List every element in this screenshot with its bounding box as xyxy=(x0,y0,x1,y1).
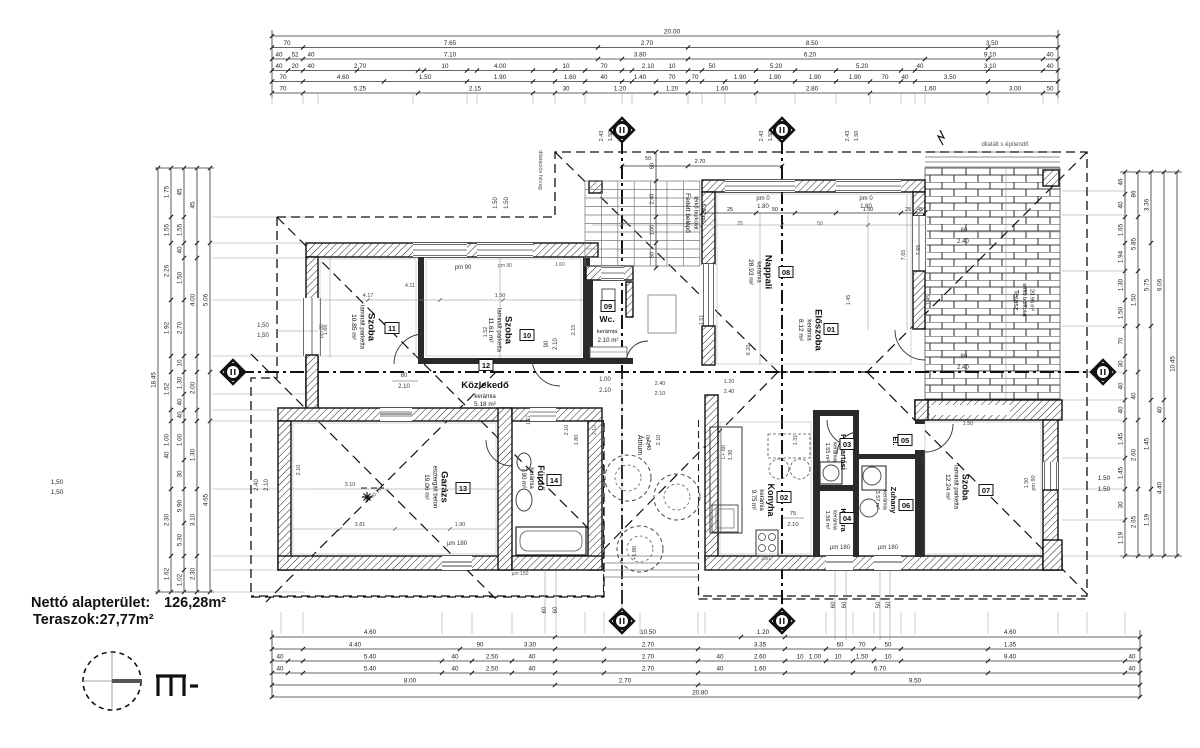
svg-text:7.65: 7.65 xyxy=(901,250,907,261)
svg-text:1.45: 1.45 xyxy=(1144,437,1151,450)
svg-text:2.40: 2.40 xyxy=(254,479,260,491)
svg-text:70: 70 xyxy=(279,74,287,81)
svg-text:10: 10 xyxy=(177,359,184,367)
svg-text:1.50: 1.50 xyxy=(854,131,860,142)
svg-text:05: 05 xyxy=(901,436,909,445)
svg-text:40: 40 xyxy=(1131,392,1138,400)
svg-text:3.80: 3.80 xyxy=(634,52,647,59)
svg-text:50: 50 xyxy=(886,601,892,608)
svg-text:3.36: 3.36 xyxy=(1144,198,1151,211)
svg-text:02: 02 xyxy=(780,493,788,502)
svg-text:1.45: 1.45 xyxy=(1118,432,1125,445)
svg-text:2.40: 2.40 xyxy=(957,239,969,245)
svg-text:90: 90 xyxy=(544,340,550,347)
svg-text:40: 40 xyxy=(1118,201,1125,209)
svg-text:3.81: 3.81 xyxy=(355,522,366,528)
svg-text:40: 40 xyxy=(275,63,283,70)
svg-text:térkő burkolat: térkő burkolat xyxy=(1021,283,1027,317)
svg-text:2.40: 2.40 xyxy=(724,389,735,395)
svg-text:40: 40 xyxy=(716,666,724,673)
svg-text:1.00: 1.00 xyxy=(177,433,184,446)
svg-text:Nettó alapterület:: Nettó alapterület: xyxy=(31,595,150,611)
svg-text:1.50: 1.50 xyxy=(177,271,184,284)
svg-text:1.50: 1.50 xyxy=(1024,478,1030,489)
svg-text:kerámia: kerámia xyxy=(597,329,618,335)
svg-text:46: 46 xyxy=(1118,178,1125,186)
svg-text:1.00: 1.00 xyxy=(809,654,822,661)
svg-text:30: 30 xyxy=(177,470,184,478)
svg-text:2.10: 2.10 xyxy=(264,479,270,491)
svg-text:1.92: 1.92 xyxy=(164,321,171,334)
svg-text:60: 60 xyxy=(842,601,848,608)
svg-text:1.50: 1.50 xyxy=(1118,306,1125,319)
svg-text:40: 40 xyxy=(716,654,724,661)
svg-text:7.90 m²: 7.90 m² xyxy=(520,468,526,488)
svg-text:2.70: 2.70 xyxy=(642,654,655,661)
svg-text:20.80: 20.80 xyxy=(692,690,708,697)
svg-text:5.90: 5.90 xyxy=(177,499,184,512)
svg-text:1.90: 1.90 xyxy=(455,522,466,528)
svg-text:Szoba: Szoba xyxy=(503,316,514,345)
svg-text:28.93 m²: 28.93 m² xyxy=(747,259,754,285)
svg-text:2.80: 2.80 xyxy=(806,86,819,93)
svg-text:1.31: 1.31 xyxy=(793,435,799,446)
svg-text:1.52: 1.52 xyxy=(483,327,489,338)
svg-text:20.00: 20.00 xyxy=(664,29,681,36)
svg-text:40: 40 xyxy=(177,246,184,254)
svg-text:1.50: 1.50 xyxy=(1098,486,1111,493)
svg-text:40: 40 xyxy=(528,666,536,673)
svg-text:1.75: 1.75 xyxy=(164,185,171,198)
svg-text:70: 70 xyxy=(600,63,608,70)
svg-text:1.90: 1.90 xyxy=(809,74,822,81)
svg-text:60: 60 xyxy=(650,252,656,258)
svg-text:1.56 m²: 1.56 m² xyxy=(824,511,830,530)
svg-text:40: 40 xyxy=(1128,654,1136,661)
svg-text:2.00: 2.00 xyxy=(190,381,197,394)
svg-text:40: 40 xyxy=(451,666,459,673)
svg-text:Fedett belépő: Fedett belépő xyxy=(684,193,691,233)
svg-text:50: 50 xyxy=(921,457,927,463)
svg-text:8.50: 8.50 xyxy=(806,40,819,47)
svg-text:7.10: 7.10 xyxy=(444,52,457,59)
svg-text:kerámia: kerámia xyxy=(832,510,838,531)
svg-text:14: 14 xyxy=(550,476,559,485)
svg-text:2.43: 2.43 xyxy=(845,131,851,142)
svg-text:50: 50 xyxy=(876,601,882,608)
svg-text:2.40: 2.40 xyxy=(655,381,666,387)
svg-text:4.40: 4.40 xyxy=(1157,481,1164,494)
svg-text:µm 180: µm 180 xyxy=(830,545,851,551)
svg-text:5.85: 5.85 xyxy=(1131,237,1138,250)
svg-text:40: 40 xyxy=(451,654,459,661)
svg-text:70: 70 xyxy=(1118,337,1125,345)
svg-text:1.20: 1.20 xyxy=(757,629,770,636)
svg-text:50: 50 xyxy=(645,156,651,162)
svg-text:2.10: 2.10 xyxy=(642,63,655,70)
svg-text:30: 30 xyxy=(562,86,570,93)
svg-text:10.50: 10.50 xyxy=(640,629,656,636)
svg-text:1,50: 1,50 xyxy=(51,489,64,496)
svg-text:1.55 m²: 1.55 m² xyxy=(824,443,830,462)
svg-text:µm 180: µm 180 xyxy=(878,545,899,551)
svg-text:45: 45 xyxy=(177,188,184,196)
svg-text:50: 50 xyxy=(708,63,716,70)
svg-text:9.40: 9.40 xyxy=(1004,654,1017,661)
svg-text:40: 40 xyxy=(1118,406,1125,414)
svg-text:Wc.: Wc. xyxy=(599,314,614,324)
svg-text:1.00: 1.00 xyxy=(599,377,611,383)
svg-text:70: 70 xyxy=(283,40,291,47)
svg-text:5.25: 5.25 xyxy=(354,86,367,93)
svg-text:50: 50 xyxy=(817,221,823,227)
svg-text:10: 10 xyxy=(796,654,804,661)
svg-text:40: 40 xyxy=(1157,406,1164,414)
svg-text:70: 70 xyxy=(858,642,866,649)
svg-text:3.57 m²: 3.57 m² xyxy=(874,491,880,510)
svg-text:5.40: 5.40 xyxy=(364,666,377,673)
svg-text:1.50: 1.50 xyxy=(1098,475,1111,482)
svg-text:2.70: 2.70 xyxy=(619,678,632,685)
svg-text:1.55: 1.55 xyxy=(177,223,184,236)
svg-text:kerámia: kerámia xyxy=(758,489,764,511)
svg-text:10: 10 xyxy=(884,654,892,661)
svg-text:6.06: 6.06 xyxy=(1157,278,1164,291)
svg-text:2.15: 2.15 xyxy=(571,325,577,336)
svg-text:1.51: 1.51 xyxy=(699,315,705,326)
svg-text:40: 40 xyxy=(1046,52,1054,59)
svg-text:70: 70 xyxy=(668,74,676,81)
svg-text:2.70: 2.70 xyxy=(177,321,184,334)
svg-text:1.20: 1.20 xyxy=(666,86,679,93)
svg-text:kerámia: kerámia xyxy=(806,319,812,341)
svg-text:Szoba: Szoba xyxy=(366,313,377,342)
svg-text:1.50: 1.50 xyxy=(963,421,974,427)
svg-text:4.60: 4.60 xyxy=(1004,629,1017,636)
svg-text:60: 60 xyxy=(836,642,844,649)
svg-text:9.10: 9.10 xyxy=(984,52,997,59)
svg-text:Terasz: Terasz xyxy=(1012,290,1019,311)
svg-text:2.70: 2.70 xyxy=(695,159,706,165)
svg-text:45: 45 xyxy=(190,201,197,209)
svg-text:1.50: 1.50 xyxy=(608,131,614,142)
svg-text:laminált parketta: laminált parketta xyxy=(496,308,502,353)
svg-text:2.15: 2.15 xyxy=(469,86,482,93)
svg-text:10: 10 xyxy=(562,63,570,70)
svg-text:Nappali: Nappali xyxy=(763,255,774,289)
svg-text:4.60: 4.60 xyxy=(364,629,377,636)
svg-text:04: 04 xyxy=(843,514,852,523)
svg-text:10: 10 xyxy=(668,63,676,70)
svg-text:2.50: 2.50 xyxy=(486,666,499,673)
svg-text:5.20: 5.20 xyxy=(770,63,783,70)
svg-text:1.90: 1.90 xyxy=(849,74,862,81)
svg-text:1.36: 1.36 xyxy=(728,450,734,461)
svg-text:8.00: 8.00 xyxy=(404,678,417,685)
svg-text:1.20: 1.20 xyxy=(614,86,627,93)
svg-text:5.30: 5.30 xyxy=(177,533,184,546)
svg-text:1.20: 1.20 xyxy=(724,379,735,385)
svg-text:06: 06 xyxy=(902,501,910,510)
svg-text:2.10: 2.10 xyxy=(656,435,662,446)
svg-text:Fürdő: Fürdő xyxy=(536,465,546,491)
svg-text:9.50: 9.50 xyxy=(909,678,922,685)
svg-text:40: 40 xyxy=(901,74,909,81)
svg-text:126,28m²: 126,28m² xyxy=(164,595,226,611)
svg-text:10: 10 xyxy=(523,331,531,340)
svg-text:86: 86 xyxy=(1131,190,1138,198)
svg-text:5.18 m²: 5.18 m² xyxy=(474,401,497,408)
svg-text:6.20: 6.20 xyxy=(804,52,817,59)
svg-text:10.45: 10.45 xyxy=(1170,356,1177,372)
svg-text:1.50: 1.50 xyxy=(1131,293,1138,306)
svg-text:2.10: 2.10 xyxy=(296,465,302,476)
svg-text:Átrium: Átrium xyxy=(636,435,645,455)
svg-text:2.10: 2.10 xyxy=(564,425,570,436)
svg-text:70: 70 xyxy=(279,86,287,93)
svg-text:2.10: 2.10 xyxy=(599,388,611,394)
svg-text:6.70: 6.70 xyxy=(874,666,887,673)
svg-text:dilatált s építendő: dilatált s építendő xyxy=(981,142,1029,148)
svg-text:08: 08 xyxy=(782,268,790,277)
svg-text:2.30: 2.30 xyxy=(190,567,197,580)
svg-text:1.90: 1.90 xyxy=(734,74,747,81)
svg-text:5.06: 5.06 xyxy=(203,293,210,306)
svg-text:1.50: 1.50 xyxy=(493,197,499,209)
svg-text:3.35: 3.35 xyxy=(754,642,767,649)
svg-text:laminált parketta: laminált parketta xyxy=(359,305,365,350)
svg-text:1.45: 1.45 xyxy=(1118,466,1125,479)
svg-text:laminált parketta: laminált parketta xyxy=(953,465,959,510)
svg-text:75: 75 xyxy=(790,511,796,517)
svg-text:5.40: 5.40 xyxy=(364,654,377,661)
svg-text:1.60: 1.60 xyxy=(754,666,767,673)
svg-text:13: 13 xyxy=(459,484,467,493)
svg-text:40: 40 xyxy=(1118,382,1125,390)
svg-text:2.70: 2.70 xyxy=(642,642,655,649)
svg-text:60: 60 xyxy=(831,601,837,608)
svg-text:40: 40 xyxy=(528,654,536,661)
svg-text:10: 10 xyxy=(441,63,449,70)
svg-text:1.60: 1.60 xyxy=(716,86,729,93)
svg-text:1.35: 1.35 xyxy=(1004,642,1017,649)
svg-text:12: 12 xyxy=(482,361,490,370)
svg-text:3.50: 3.50 xyxy=(944,74,957,81)
svg-text:4.40: 4.40 xyxy=(349,642,362,649)
svg-text:2.81: 2.81 xyxy=(761,556,771,562)
svg-text:50: 50 xyxy=(884,642,892,649)
svg-text:3.10: 3.10 xyxy=(190,513,197,526)
svg-text:30: 30 xyxy=(1118,501,1125,509)
svg-text:1.45: 1.45 xyxy=(926,295,932,306)
svg-text:pm 90: pm 90 xyxy=(455,265,472,271)
svg-text:kerámia: kerámia xyxy=(832,442,838,463)
svg-text:45: 45 xyxy=(917,207,923,213)
svg-text:5.75: 5.75 xyxy=(1144,278,1151,291)
svg-text:90: 90 xyxy=(476,642,484,649)
svg-text:3.10: 3.10 xyxy=(345,482,356,488)
svg-text:20: 20 xyxy=(291,63,299,70)
svg-text:1.62: 1.62 xyxy=(164,567,171,580)
svg-text:9.75 m²: 9.75 m² xyxy=(750,490,756,510)
svg-text:Előszoba: Előszoba xyxy=(813,309,824,351)
svg-text:19.06 m²: 19.06 m² xyxy=(423,474,430,500)
svg-text:pm 0: pm 0 xyxy=(859,196,873,202)
svg-text:4.17: 4.17 xyxy=(363,293,374,299)
svg-text:pm 0: pm 0 xyxy=(756,196,770,202)
svg-text:Konyha: Konyha xyxy=(766,483,776,517)
svg-text:1.60: 1.60 xyxy=(555,262,565,268)
svg-text:kerámia: kerámia xyxy=(528,467,534,489)
svg-text:4.65: 4.65 xyxy=(203,493,210,506)
svg-text:µm 150: µm 150 xyxy=(512,571,529,577)
svg-text:09: 09 xyxy=(604,302,612,311)
svg-text:kerámia: kerámia xyxy=(474,394,496,400)
svg-text:2.10: 2.10 xyxy=(655,391,666,397)
svg-text:10: 10 xyxy=(834,654,842,661)
svg-text:L+ 60: L+ 60 xyxy=(721,445,727,459)
svg-text:30: 30 xyxy=(1118,360,1125,368)
svg-text:40: 40 xyxy=(916,63,924,70)
svg-text:Garázs: Garázs xyxy=(439,471,450,503)
svg-text:pm 90: pm 90 xyxy=(1031,475,1037,490)
svg-text:1.02: 1.02 xyxy=(177,573,184,586)
svg-text:40: 40 xyxy=(1128,666,1136,673)
svg-text:1.50: 1.50 xyxy=(768,131,774,142)
svg-text:.80: .80 xyxy=(959,354,968,360)
svg-text:2.60: 2.60 xyxy=(754,654,767,661)
svg-text:4.11: 4.11 xyxy=(405,283,415,289)
svg-text:+1.80: +1.80 xyxy=(632,546,638,560)
svg-text:40: 40 xyxy=(307,52,315,59)
svg-text:11: 11 xyxy=(388,324,396,333)
svg-text:1.50: 1.50 xyxy=(856,654,869,661)
svg-text:4.00: 4.00 xyxy=(494,63,507,70)
svg-text:80: 80 xyxy=(401,373,408,379)
svg-text:2.60: 2.60 xyxy=(1131,448,1138,461)
svg-text:1.30: 1.30 xyxy=(190,448,197,461)
svg-text:Teraszok:27,77m²: Teraszok:27,77m² xyxy=(33,612,154,628)
svg-text:40: 40 xyxy=(177,398,184,406)
svg-text:1.45: 1.45 xyxy=(846,295,852,306)
svg-text:3.30: 3.30 xyxy=(524,642,537,649)
svg-text:2.40: 2.40 xyxy=(646,435,652,446)
svg-text:1.60: 1.60 xyxy=(564,74,577,81)
svg-text:25: 25 xyxy=(727,207,733,213)
svg-text:3.50: 3.50 xyxy=(986,40,999,47)
svg-text:µm 180: µm 180 xyxy=(447,541,468,547)
svg-text:dilatációs hézag: dilatációs hézag xyxy=(537,150,543,189)
svg-text:1,50: 1,50 xyxy=(257,333,269,339)
svg-text:8.12 m²: 8.12 m² xyxy=(797,319,804,342)
svg-text:1.50: 1.50 xyxy=(504,197,510,209)
svg-text:1.50: 1.50 xyxy=(863,207,874,213)
svg-text:3.10: 3.10 xyxy=(984,63,997,70)
svg-text:.80: .80 xyxy=(959,228,968,234)
svg-text:2.10: 2.10 xyxy=(553,338,559,350)
svg-text:50: 50 xyxy=(772,207,778,213)
svg-text:20.96 m²: 20.96 m² xyxy=(1029,289,1035,311)
svg-text:1.40: 1.40 xyxy=(634,74,647,81)
svg-text:2.10: 2.10 xyxy=(592,425,598,435)
svg-text:2.70: 2.70 xyxy=(642,666,655,673)
svg-text:kerámia: kerámia xyxy=(882,490,888,511)
svg-text:07: 07 xyxy=(982,486,990,495)
svg-text:1.94: 1.94 xyxy=(1118,250,1125,263)
svg-text:1.00: 1.00 xyxy=(164,433,171,446)
svg-text:40: 40 xyxy=(276,654,284,661)
svg-text:40: 40 xyxy=(307,63,315,70)
svg-text:50: 50 xyxy=(1046,86,1054,93)
svg-text:2.43: 2.43 xyxy=(759,131,765,142)
svg-text:kerámia: kerámia xyxy=(756,261,762,283)
svg-text:18.45: 18.45 xyxy=(151,372,158,388)
svg-text:1.19: 1.19 xyxy=(1144,513,1151,526)
svg-text:40: 40 xyxy=(276,666,284,673)
svg-text:3.00: 3.00 xyxy=(1009,86,1022,93)
svg-text:6.20: 6.20 xyxy=(746,345,752,356)
svg-text:1.00: 1.00 xyxy=(650,225,656,236)
svg-text:1.77: 1.77 xyxy=(526,415,532,425)
svg-text:2.40: 2.40 xyxy=(957,365,969,371)
svg-text:25: 25 xyxy=(905,207,911,213)
svg-text:1.30: 1.30 xyxy=(177,376,184,389)
svg-text:1,50: 1,50 xyxy=(51,479,64,486)
svg-text:12.24 m²: 12.24 m² xyxy=(944,474,951,500)
svg-text:1.65: 1.65 xyxy=(1118,223,1125,236)
svg-text:2.65: 2.65 xyxy=(1131,515,1138,528)
svg-text:2.26: 2.26 xyxy=(164,264,171,277)
svg-text:2.40: 2.40 xyxy=(650,194,656,205)
svg-text:40: 40 xyxy=(177,411,184,419)
svg-text:10.85 m²: 10.85 m² xyxy=(350,314,357,340)
svg-text:1.90: 1.90 xyxy=(769,74,782,81)
svg-text:1.80: 1.80 xyxy=(757,204,769,210)
svg-text:1.52: 1.52 xyxy=(164,382,171,395)
svg-text:2.10: 2.10 xyxy=(398,384,410,390)
svg-text:esztergált beton: esztergált beton xyxy=(432,466,438,509)
svg-text:1.30: 1.30 xyxy=(1118,278,1125,291)
svg-text:1.55: 1.55 xyxy=(164,223,171,236)
svg-text:1.90: 1.90 xyxy=(494,74,507,81)
svg-text:5.20: 5.20 xyxy=(856,63,869,70)
svg-text:7.65: 7.65 xyxy=(916,245,922,256)
svg-text:2.70: 2.70 xyxy=(354,63,367,70)
svg-text:03: 03 xyxy=(843,440,851,449)
svg-text:Szoba: Szoba xyxy=(961,474,971,501)
svg-text:Zuhany: Zuhany xyxy=(889,487,898,514)
svg-text:pm 80: pm 80 xyxy=(319,324,325,338)
svg-text:2.70: 2.70 xyxy=(641,40,654,47)
svg-text:40: 40 xyxy=(164,451,171,459)
svg-text:4.00: 4.00 xyxy=(190,293,197,306)
svg-text:2.10 m²: 2.10 m² xyxy=(598,337,619,344)
svg-text:52: 52 xyxy=(291,52,299,59)
svg-text:70: 70 xyxy=(881,74,889,81)
svg-text:7.65: 7.65 xyxy=(444,40,457,47)
svg-text:2.50: 2.50 xyxy=(486,654,499,661)
svg-text:Közlekedő: Közlekedő xyxy=(461,380,509,391)
svg-text:4.60: 4.60 xyxy=(337,74,350,81)
svg-text:pm 90: pm 90 xyxy=(498,263,512,269)
svg-text:1,50: 1,50 xyxy=(257,323,269,329)
svg-text:1.60: 1.60 xyxy=(924,86,937,93)
svg-text:01: 01 xyxy=(827,325,835,334)
svg-text:70: 70 xyxy=(691,74,699,81)
svg-text:40: 40 xyxy=(275,52,283,59)
svg-text:1.50: 1.50 xyxy=(419,74,432,81)
svg-text:1.19: 1.19 xyxy=(1118,531,1125,544)
